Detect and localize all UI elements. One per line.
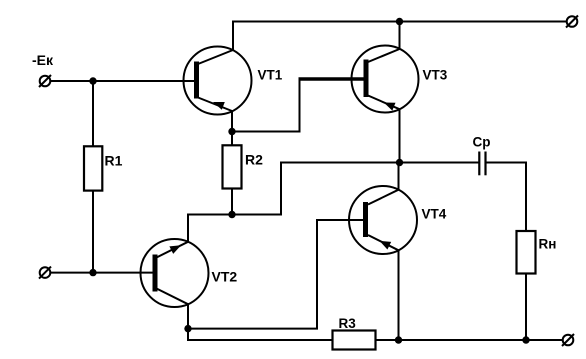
wire top rail from VT1 collector to output terminal	[233, 22, 567, 51]
wire VT1 emitter to VT3 base (corner)	[232, 79, 300, 132]
svg-text:-Ек: -Ек	[32, 52, 54, 68]
node junction R2 bottom	[228, 211, 235, 218]
wire R2 top lead	[231, 132, 233, 146]
svg-text:R2: R2	[245, 152, 263, 168]
resistor R3	[333, 331, 376, 350]
svg-text:Rн: Rн	[539, 236, 557, 251]
wire R1 bottom lead	[92, 191, 94, 273]
wire -Ек terminal to VT1 base	[51, 80, 197, 82]
wire Cp to Rн top	[487, 163, 527, 232]
resistor R2	[223, 145, 242, 188]
wire Rн bottom lead	[525, 274, 527, 341]
node junction mid rail	[396, 159, 403, 166]
transistor VT4	[349, 186, 417, 254]
node junction VT3 collector / top rail	[396, 18, 403, 25]
node junction feedback / VT2 emitter	[184, 325, 191, 332]
wire VT3 collector lead	[399, 22, 401, 50]
transistor VT2	[141, 239, 209, 307]
node junction R1 top	[89, 77, 96, 84]
wire R2 bottom lead	[231, 189, 233, 215]
wire left-bottom terminal to VT2 base	[50, 272, 155, 274]
resistor Rн	[517, 231, 536, 274]
terminal Ø left-bottom	[39, 267, 51, 279]
svg-text:VT4: VT4	[422, 207, 447, 222]
capacitor Cp	[479, 152, 485, 176]
node junction Rн / bottom rail	[522, 336, 529, 343]
svg-text:VT3: VT3	[423, 68, 448, 83]
node junction R1 bottom	[89, 269, 96, 276]
terminal Ø bottom-right	[562, 334, 574, 346]
wire VT1 emitter lead	[231, 111, 233, 132]
wire VT4 base feedback to VT2 emitter	[188, 220, 366, 329]
wire R1 top lead	[92, 81, 94, 146]
svg-text:R3: R3	[339, 316, 357, 331]
wire VT4 emitter lead	[398, 250, 400, 340]
svg-text:R1: R1	[105, 153, 123, 169]
wire VT2 emitter lead down to bottom rail to R3	[188, 304, 333, 340]
wire bottom rail right of R3	[376, 339, 563, 341]
node junction VT1 emitter / R2	[228, 128, 235, 135]
wire VT2 emitter-top lead to mid rail to Cp	[188, 163, 479, 242]
svg-text:VT2: VT2	[212, 269, 238, 285]
resistor R1	[84, 146, 102, 190]
transistor VT3	[352, 46, 419, 113]
svg-text:VT1: VT1	[258, 68, 283, 83]
transistor VT1	[184, 47, 252, 115]
wire VT4 collector lead	[398, 163, 400, 190]
terminal Ø top-right	[566, 16, 578, 28]
wire VT3 emitter lead	[399, 109, 401, 162]
svg-text:Cp: Cp	[473, 134, 491, 149]
node junction VT4 emitter / bottom rail	[395, 336, 402, 343]
wire VT3 base feed (thick)	[299, 77, 367, 81]
terminal Ø left-top (-Ек input)	[39, 75, 51, 87]
